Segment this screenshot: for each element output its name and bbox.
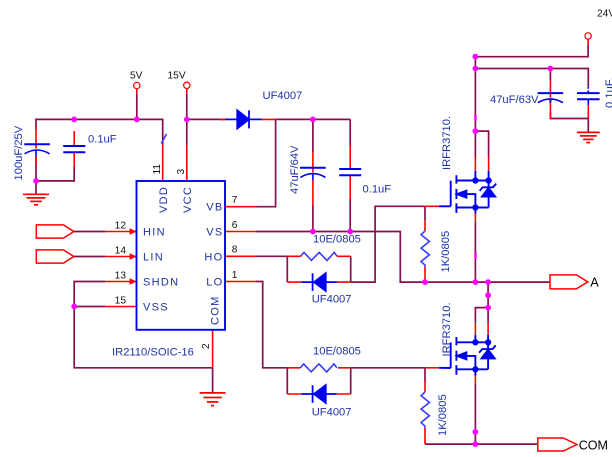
svg-text:A: A [590, 275, 599, 289]
svg-text:14: 14 [115, 246, 127, 257]
svg-text:10E/0805: 10E/0805 [313, 234, 361, 246]
svg-text:LIN: LIN [143, 251, 164, 263]
svg-text:1: 1 [232, 270, 238, 281]
svg-text:IRFR3710.: IRFR3710. [441, 302, 453, 356]
svg-text:0.1uF: 0.1uF [363, 183, 392, 195]
svg-text:47uF/64V: 47uF/64V [289, 145, 301, 194]
svg-text:HO: HO [204, 252, 223, 264]
svg-text:LO: LO [206, 277, 223, 289]
svg-text:2: 2 [201, 343, 212, 349]
svg-text:6: 6 [232, 220, 238, 231]
svg-text:VSS: VSS [143, 301, 169, 313]
svg-text:100uF/25V: 100uF/25V [13, 125, 25, 180]
svg-text:UF4007: UF4007 [263, 90, 303, 102]
svg-text:8: 8 [232, 245, 238, 256]
svg-text:0.1uF.: 0.1uF. [604, 78, 612, 108]
svg-text:COM: COM [579, 438, 608, 452]
svg-text:UF4007: UF4007 [312, 407, 352, 419]
svg-text:VS: VS [206, 227, 223, 239]
svg-text:UF4007: UF4007 [312, 294, 352, 306]
svg-text:VB: VB [206, 202, 223, 214]
svg-text:11: 11 [152, 164, 163, 175]
svg-text:1K/0805: 1K/0805 [440, 231, 452, 273]
svg-text:COM: COM [210, 295, 222, 325]
svg-text:0.1uF: 0.1uF [88, 134, 117, 146]
svg-text:13: 13 [115, 271, 127, 282]
svg-text:15: 15 [115, 296, 127, 307]
svg-text:IR2110/SOIC-16: IR2110/SOIC-16 [112, 347, 194, 359]
svg-text:24V: 24V [597, 9, 612, 20]
svg-text:7: 7 [232, 195, 238, 206]
svg-text:47uF/63V: 47uF/63V [490, 94, 539, 106]
svg-text:VCC: VCC [182, 186, 194, 213]
svg-text:IRFR3710.: IRFR3710. [441, 116, 453, 170]
svg-text:VDD: VDD [158, 186, 170, 213]
svg-text:1K/0805: 1K/0805 [437, 394, 449, 436]
svg-text:10E/0805: 10E/0805 [313, 346, 361, 358]
svg-text:HIN: HIN [143, 226, 166, 238]
svg-text:5V: 5V [130, 71, 143, 82]
svg-text:3: 3 [176, 169, 187, 175]
svg-text:12: 12 [115, 221, 127, 232]
svg-text:SHDN: SHDN [143, 276, 179, 288]
svg-text:15V: 15V [168, 71, 186, 82]
